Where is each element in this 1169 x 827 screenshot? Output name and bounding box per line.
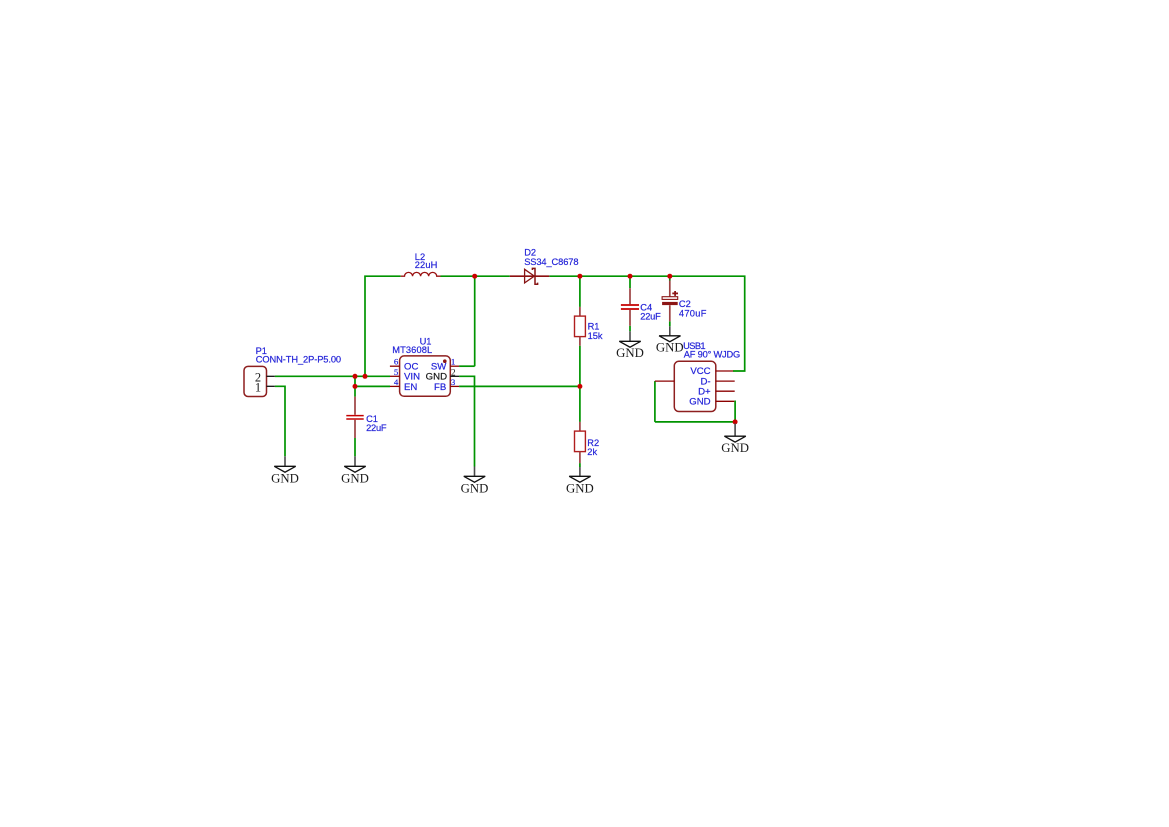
wire EN	[355, 385, 390, 387]
svg-text:1: 1	[255, 380, 261, 394]
IC U1 body	[400, 356, 451, 396]
capacitor C1 bottom lead	[354, 420, 356, 438]
resistor R2 body	[575, 431, 586, 452]
svg-text:D2: D2	[524, 248, 536, 258]
resistor R1 body	[575, 316, 586, 337]
junction SW node on rail	[472, 274, 477, 279]
capacitor C1 top lead	[354, 397, 356, 415]
junction FB node	[577, 384, 582, 389]
ground below C4	[616, 331, 644, 360]
svg-text:470uF: 470uF	[679, 309, 707, 319]
junction node VIN at rail drop	[363, 374, 368, 379]
U1 pin 4 lead	[390, 385, 400, 387]
capacitor C2 top lead	[669, 281, 671, 297]
USB1 shield pin lead	[655, 380, 674, 382]
U1 pin 3 lead	[450, 385, 459, 387]
svg-text:GND: GND	[461, 482, 489, 496]
svg-text:EN: EN	[404, 382, 417, 393]
wire C4 bottom stub	[629, 326, 631, 332]
wire FB to divider	[459, 385, 580, 387]
wire R1 to R2	[579, 346, 581, 422]
USB1 GND pin lead	[716, 400, 735, 402]
wire VIN rail left vertical + top rail to L2	[365, 276, 401, 376]
resistor R2 bottom lead	[579, 452, 581, 464]
wire USB shield bottom horizontal	[655, 421, 735, 423]
wire USB GND pin down	[733, 401, 736, 422]
svg-text:SS34_C8678: SS34_C8678	[524, 257, 578, 267]
wire C1 top connection	[354, 376, 356, 396]
svg-text:GND: GND	[689, 397, 710, 408]
junction VOUT at R1	[577, 274, 582, 279]
U1 pin 1 lead	[450, 365, 459, 367]
ground below R2	[566, 467, 594, 496]
svg-text:MT3608L: MT3608L	[392, 345, 432, 355]
svg-text:FB: FB	[434, 382, 446, 393]
wire top rail L2 to D2	[441, 275, 510, 277]
capacitor C4 bottom lead	[629, 310, 631, 326]
wire top rail D2 to right corner down to USB VCC	[549, 276, 744, 371]
resistor R2 top lead	[579, 422, 581, 431]
wire R2 bottom stub	[579, 463, 581, 467]
P1 pin 1 lead	[267, 385, 275, 387]
wire P1 pin1 to GND	[275, 386, 285, 456]
U1 pin 5 lead	[390, 375, 400, 377]
wire rail to R1	[579, 276, 581, 307]
wire U1 GND pin down	[459, 376, 474, 466]
resistor R1 bottom lead	[579, 337, 581, 346]
svg-text:GND: GND	[566, 482, 594, 496]
wire SW pin to drop	[459, 365, 475, 367]
diode D2 leads	[510, 275, 550, 277]
USB1 D+ pin lead	[716, 390, 735, 392]
capacitor C1 plates	[346, 416, 363, 419]
junction node VIN at C1	[353, 374, 358, 379]
svg-text:22uF: 22uF	[366, 423, 387, 433]
svg-text:GND: GND	[341, 472, 369, 486]
USB1 VCC pin lead	[716, 370, 733, 372]
svg-text:AF 90° WJDG: AF 90° WJDG	[684, 349, 740, 359]
capacitor C4 plates	[621, 305, 639, 309]
svg-text:GND: GND	[271, 472, 299, 486]
capacitor C4 top lead	[629, 288, 631, 304]
svg-text:5: 5	[394, 367, 399, 377]
svg-text:CONN-TH_2P-P5.00: CONN-TH_2P-P5.00	[256, 355, 341, 365]
ground below C2	[656, 326, 684, 354]
svg-text:15k: 15k	[588, 331, 603, 341]
USB1 D- pin lead	[716, 380, 735, 382]
wire C4 top stub	[629, 276, 631, 288]
U1 pin 6 lead	[390, 365, 400, 367]
wire SW node drop	[474, 276, 476, 366]
wire C1 bottom to GND	[354, 438, 356, 456]
wire P1 pin2 to VIN	[275, 375, 390, 377]
U1 pin 2 lead	[450, 375, 459, 377]
svg-text:GND: GND	[721, 441, 749, 455]
junction node EN/C1	[353, 384, 358, 389]
svg-text:6: 6	[394, 357, 399, 367]
wire USB shield left vertical	[654, 381, 656, 422]
resistor R1 top lead	[579, 307, 581, 316]
svg-text:GND: GND	[616, 346, 644, 360]
wire C2 bottom stub	[669, 321, 671, 326]
svg-text:3: 3	[451, 377, 456, 387]
ground below U1 GND pin	[461, 467, 489, 496]
svg-text:1: 1	[451, 357, 455, 367]
diode D2 triangle	[525, 269, 535, 283]
connector USB1 body	[674, 361, 716, 411]
diode D2 schottky cathode bar	[532, 268, 537, 284]
capacitor C2 bottom lead	[669, 305, 671, 321]
inductor L2	[401, 272, 441, 276]
svg-text:22uF: 22uF	[640, 311, 661, 321]
ground below P1 pin1	[271, 456, 299, 485]
U1 pin1 dot marker	[443, 359, 447, 363]
junction USB GND node	[733, 419, 738, 424]
junction VOUT at C4	[628, 274, 633, 279]
C2 top plate	[662, 297, 678, 300]
svg-text:4: 4	[394, 377, 399, 387]
svg-text:2k: 2k	[587, 447, 597, 457]
connector P1 body	[244, 366, 267, 396]
ground below C1	[341, 456, 369, 485]
svg-text:GND: GND	[656, 340, 684, 354]
svg-text:22uH: 22uH	[415, 260, 438, 270]
C2 polarity plus sign	[672, 291, 678, 296]
P1 pin 2 lead	[267, 375, 275, 377]
C2 bottom plate	[662, 302, 678, 305]
wire C2 top stub	[669, 276, 671, 280]
ground below USB1	[721, 424, 749, 456]
junction VOUT at C2	[667, 274, 672, 279]
